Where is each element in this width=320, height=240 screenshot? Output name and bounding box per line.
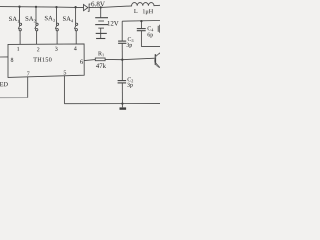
battery GB 12V (95, 6, 108, 38)
label R1 (98, 51, 104, 56)
pin 6 wire (84, 60, 95, 61)
zener diode VD 6.8V (84, 4, 91, 11)
label pin6 (80, 60, 83, 64)
right edge marks (157, 26, 159, 32)
label pin3 (55, 47, 57, 51)
resistor R1 47k (95, 58, 122, 61)
pin 7 wire (27, 77, 29, 98)
pin 5 wire (63, 76, 65, 104)
label L (134, 9, 137, 13)
node switch1 tap (18, 6, 20, 8)
label pin2 (37, 47, 39, 51)
switch SA3 (55, 7, 58, 44)
node C2 bottom (121, 102, 123, 104)
label ED (0, 82, 8, 86)
label C4 (148, 26, 154, 31)
node R1/base (121, 59, 123, 61)
switch SA4 (74, 7, 77, 44)
capacitor C2 3p (118, 60, 127, 104)
IC U1 TH150 box (8, 44, 84, 78)
label 3pC2 (127, 83, 132, 88)
label 1uH (143, 9, 153, 14)
switch SA2 (35, 7, 38, 44)
transistor VT (155, 53, 170, 68)
label pin4 (74, 46, 77, 50)
label C3 (128, 37, 134, 42)
label TH150 (33, 57, 51, 61)
label SA2 (26, 16, 36, 22)
capacitor C3 3p (118, 21, 126, 60)
wire supply bus right of zener (89, 6, 132, 8)
label 3pC3 (127, 43, 132, 48)
node switch2 tap (35, 6, 37, 8)
wire base (122, 58, 155, 60)
label 12V (108, 21, 119, 26)
label pin5 (64, 70, 66, 74)
label 6.8V (91, 2, 105, 7)
wire collector top line (122, 20, 160, 23)
label 6p (148, 33, 153, 38)
label pin1 (17, 47, 19, 51)
ground bar below bus (121, 104, 123, 108)
node switch4 tap (74, 6, 76, 8)
inductor L 1uH (132, 3, 160, 6)
node switch3 tap (55, 6, 57, 8)
label SA1 (9, 17, 19, 23)
wire LED to pin7 (0, 97, 28, 99)
node C1 tap (140, 20, 142, 22)
label pin8 (11, 58, 14, 62)
paper background (0, 0, 160, 110)
label pin7 (27, 72, 29, 76)
label SA4 (63, 16, 73, 22)
switch SA1 (18, 7, 21, 45)
label SA3 (45, 16, 55, 22)
label 47k (96, 63, 106, 68)
wire top supply bus (0, 7, 84, 8)
label C2 (128, 77, 134, 82)
wire bottom bus (64, 103, 160, 105)
capacitor C1 6p (137, 21, 160, 46)
pin 8 wire (0, 56, 8, 58)
